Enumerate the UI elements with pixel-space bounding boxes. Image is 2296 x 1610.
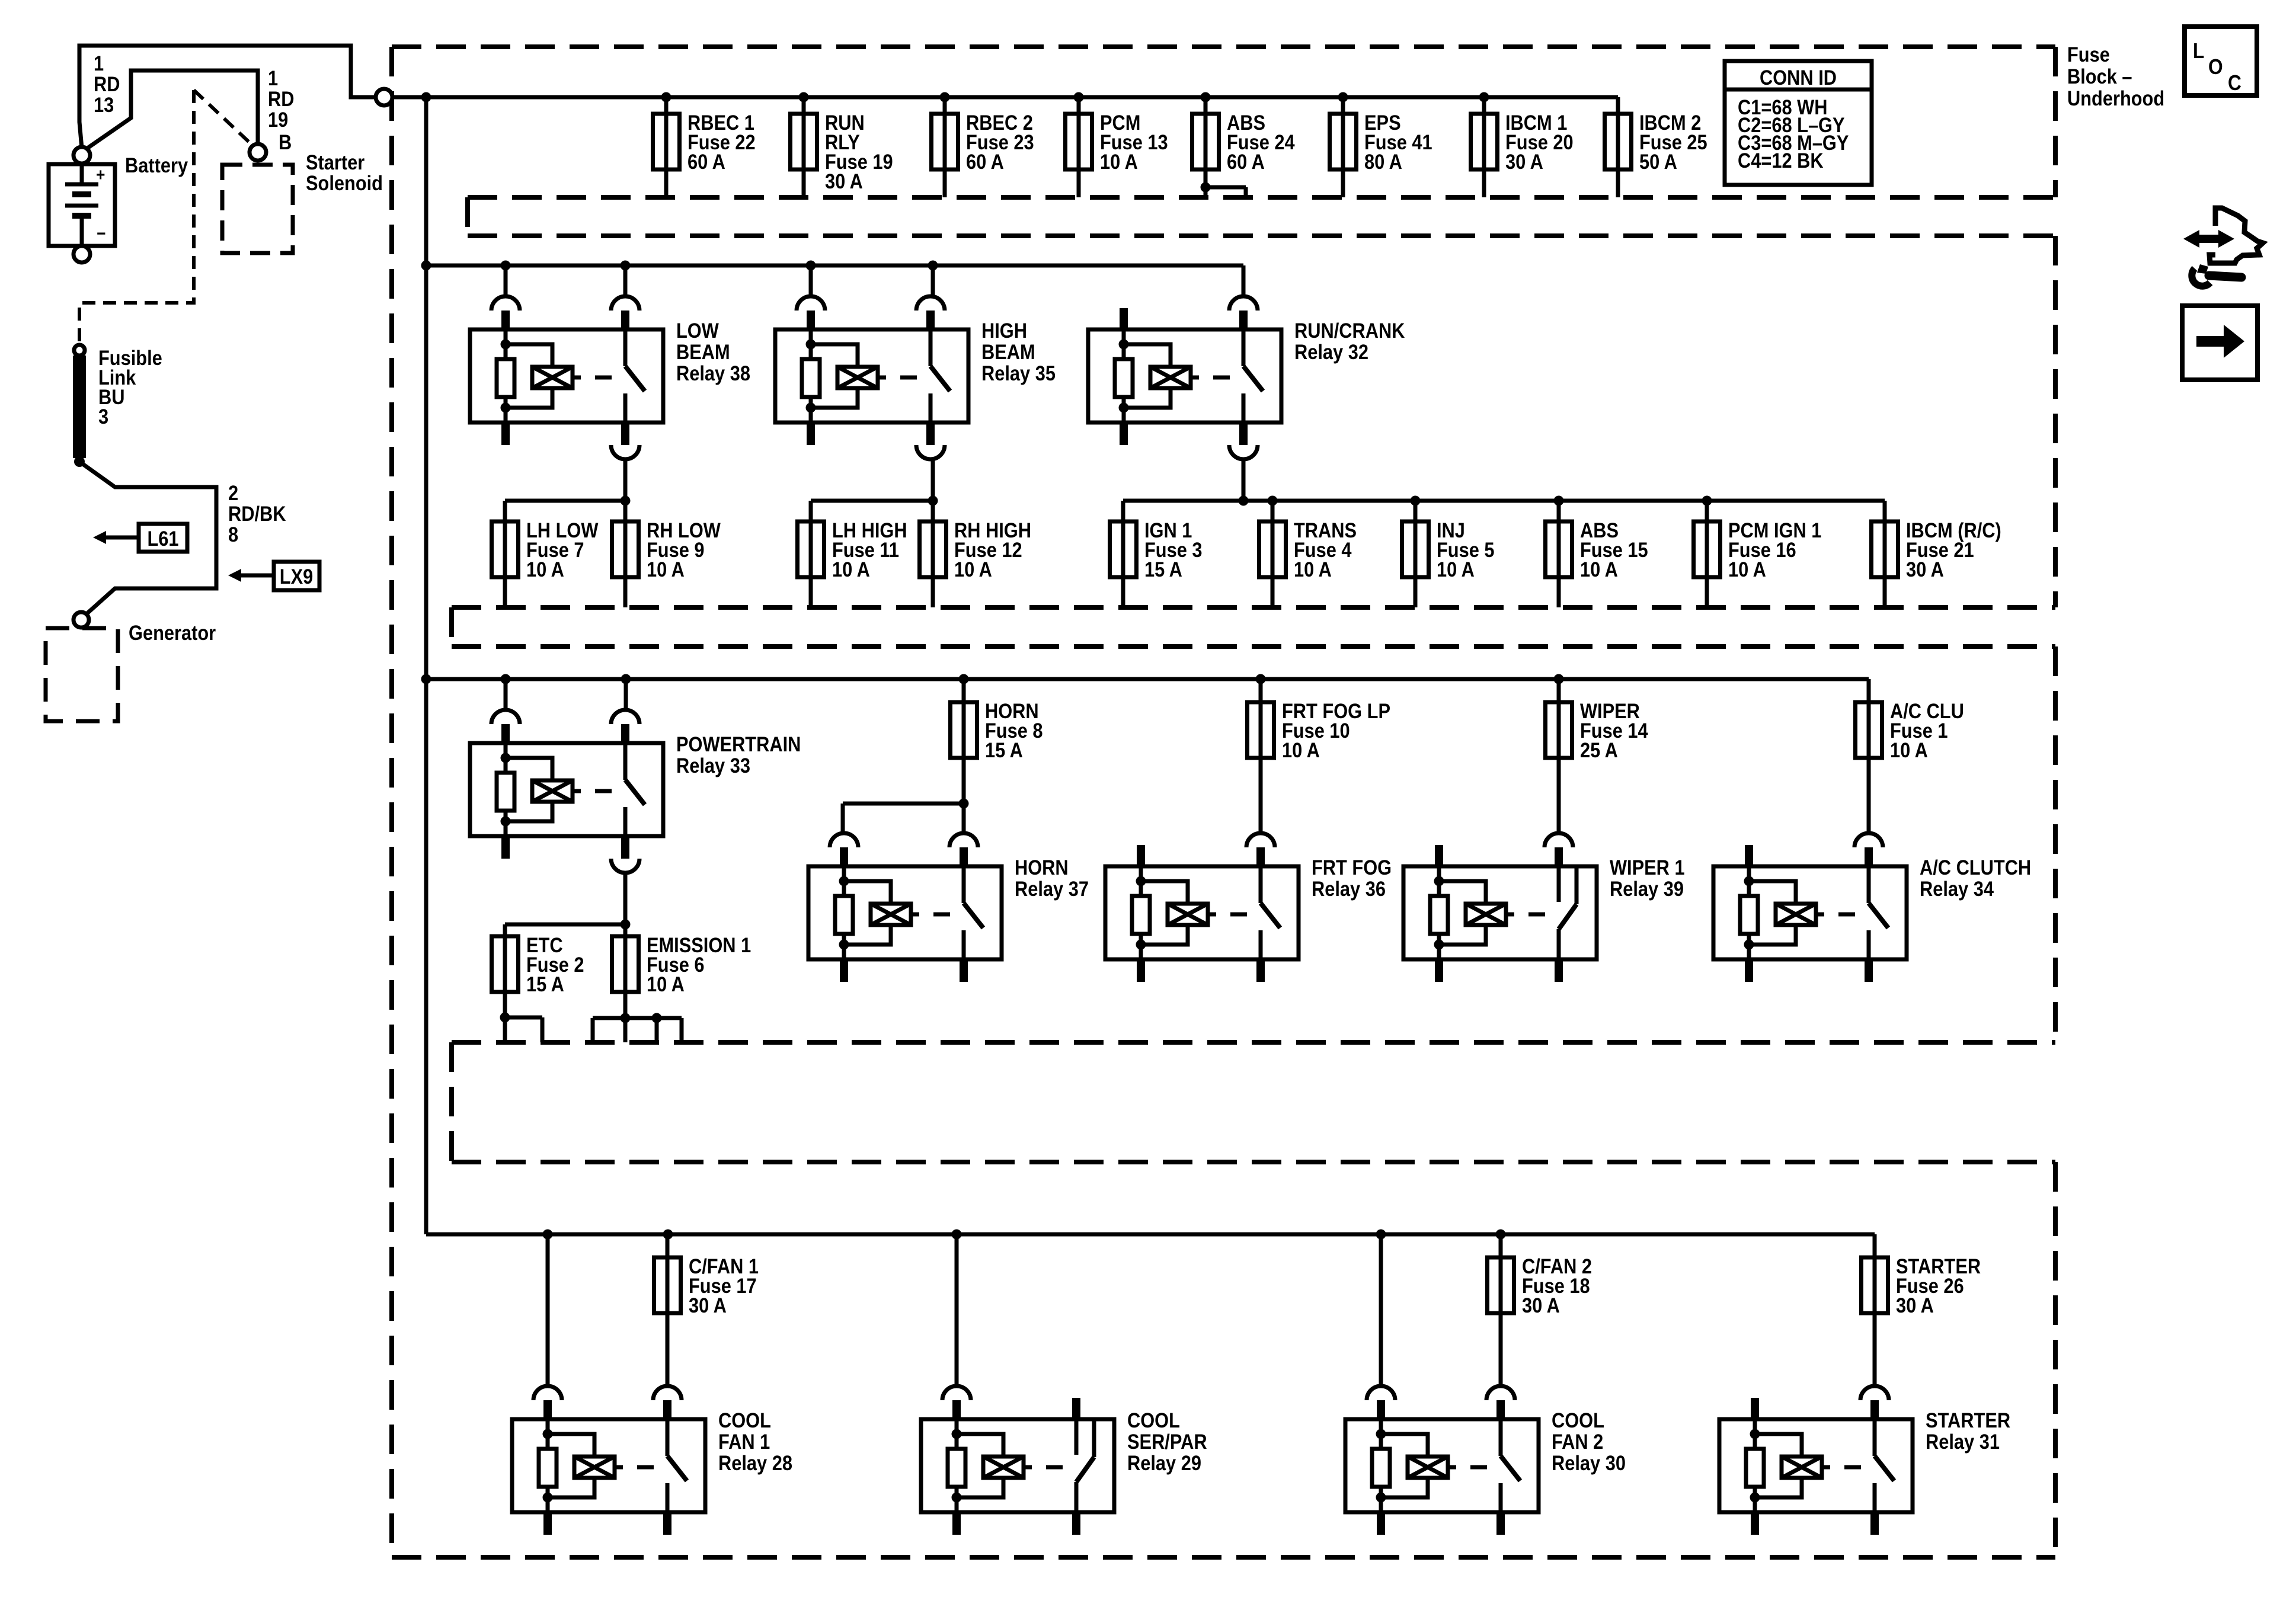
svg-text:10 A: 10 A [647,558,685,581]
svg-text:30 A: 30 A [1906,558,1944,581]
svg-text:−: − [97,223,105,243]
svg-text:C4=12 BK: C4=12 BK [1738,149,1824,172]
svg-text:A/C CLUTCH: A/C CLUTCH [1920,856,2031,879]
svg-text:Relay 39: Relay 39 [1610,877,1684,900]
svg-text:25 A: 25 A [1580,738,1618,761]
svg-text:Relay 31: Relay 31 [1926,1430,2000,1453]
svg-text:30 A: 30 A [1522,1294,1560,1317]
svg-text:FAN 1: FAN 1 [718,1430,770,1453]
svg-text:COOL: COOL [1552,1409,1604,1432]
svg-text:10 A: 10 A [1100,150,1138,173]
svg-text:60 A: 60 A [687,150,725,173]
svg-text:60 A: 60 A [1227,150,1265,173]
svg-text:15 A: 15 A [1144,558,1182,581]
svg-text:RD: RD [268,87,294,110]
svg-text:Block –: Block – [2067,65,2132,88]
svg-text:HIGH: HIGH [981,319,1027,342]
svg-text:10 A: 10 A [647,972,685,996]
svg-text:Relay 35: Relay 35 [981,361,1056,385]
svg-text:8: 8 [228,523,238,546]
svg-text:SER/PAR: SER/PAR [1127,1430,1207,1453]
svg-text:10 A: 10 A [1294,558,1332,581]
svg-text:LOW: LOW [676,319,720,342]
svg-text:50 A: 50 A [1639,150,1677,173]
svg-text:Generator: Generator [129,621,216,644]
svg-text:13: 13 [94,93,114,116]
svg-text:Relay 28: Relay 28 [718,1451,792,1474]
svg-text:Relay 34: Relay 34 [1920,877,1994,900]
svg-text:30 A: 30 A [1896,1294,1934,1317]
svg-text:Relay 36: Relay 36 [1312,877,1386,900]
svg-text:10 A: 10 A [954,558,992,581]
svg-text:Relay 29: Relay 29 [1127,1451,1201,1474]
svg-text:10 A: 10 A [1282,738,1320,761]
svg-text:LX9: LX9 [280,565,313,588]
svg-text:Fuse: Fuse [2067,43,2110,66]
svg-text:30 A: 30 A [1505,150,1543,173]
svg-text:Underhood: Underhood [2067,87,2164,110]
svg-text:1: 1 [268,66,278,89]
svg-text:Solenoid: Solenoid [306,171,383,194]
svg-text:BEAM: BEAM [676,340,730,363]
svg-text:POWERTRAIN: POWERTRAIN [676,732,801,756]
svg-text:+: + [96,164,105,184]
svg-text:Starter: Starter [306,151,364,174]
svg-text:Battery: Battery [125,153,188,177]
svg-text:10 A: 10 A [1580,558,1618,581]
svg-text:RD/BK: RD/BK [228,502,286,525]
svg-text:FRT FOG: FRT FOG [1312,856,1392,879]
svg-text:Relay 33: Relay 33 [676,754,750,777]
svg-text:15 A: 15 A [526,972,564,996]
svg-text:1: 1 [94,52,104,75]
svg-text:80 A: 80 A [1364,150,1402,173]
svg-text:Relay 37: Relay 37 [1015,877,1089,900]
svg-text:30 A: 30 A [825,169,863,193]
svg-text:10 A: 10 A [1728,558,1766,581]
svg-text:FAN 2: FAN 2 [1552,1430,1603,1453]
svg-text:19: 19 [268,108,288,131]
svg-text:CONN ID: CONN ID [1760,66,1837,89]
svg-text:C: C [2228,71,2241,95]
svg-text:RUN/CRANK: RUN/CRANK [1294,319,1405,342]
svg-text:10 A: 10 A [832,558,870,581]
svg-text:10 A: 10 A [1890,738,1928,761]
svg-text:10 A: 10 A [526,558,564,581]
svg-text:B: B [279,130,292,153]
svg-text:3: 3 [98,405,108,428]
svg-text:RD: RD [94,72,120,95]
svg-text:Relay 30: Relay 30 [1552,1451,1626,1474]
svg-text:10 A: 10 A [1437,558,1475,581]
svg-text:HORN: HORN [1015,856,1069,879]
svg-text:2: 2 [228,481,238,504]
svg-text:COOL: COOL [718,1409,771,1432]
svg-text:60 A: 60 A [966,150,1004,173]
svg-text:O: O [2208,55,2223,79]
svg-text:15 A: 15 A [985,738,1023,761]
svg-text:30 A: 30 A [689,1294,727,1317]
svg-text:L: L [2193,39,2204,63]
svg-text:L61: L61 [147,527,178,550]
svg-text:STARTER: STARTER [1926,1409,2010,1432]
svg-text:Relay 32: Relay 32 [1294,340,1368,363]
svg-text:Relay 38: Relay 38 [676,361,750,385]
svg-text:WIPER 1: WIPER 1 [1610,856,1685,879]
svg-text:BEAM: BEAM [981,340,1035,363]
svg-text:COOL: COOL [1127,1409,1180,1432]
